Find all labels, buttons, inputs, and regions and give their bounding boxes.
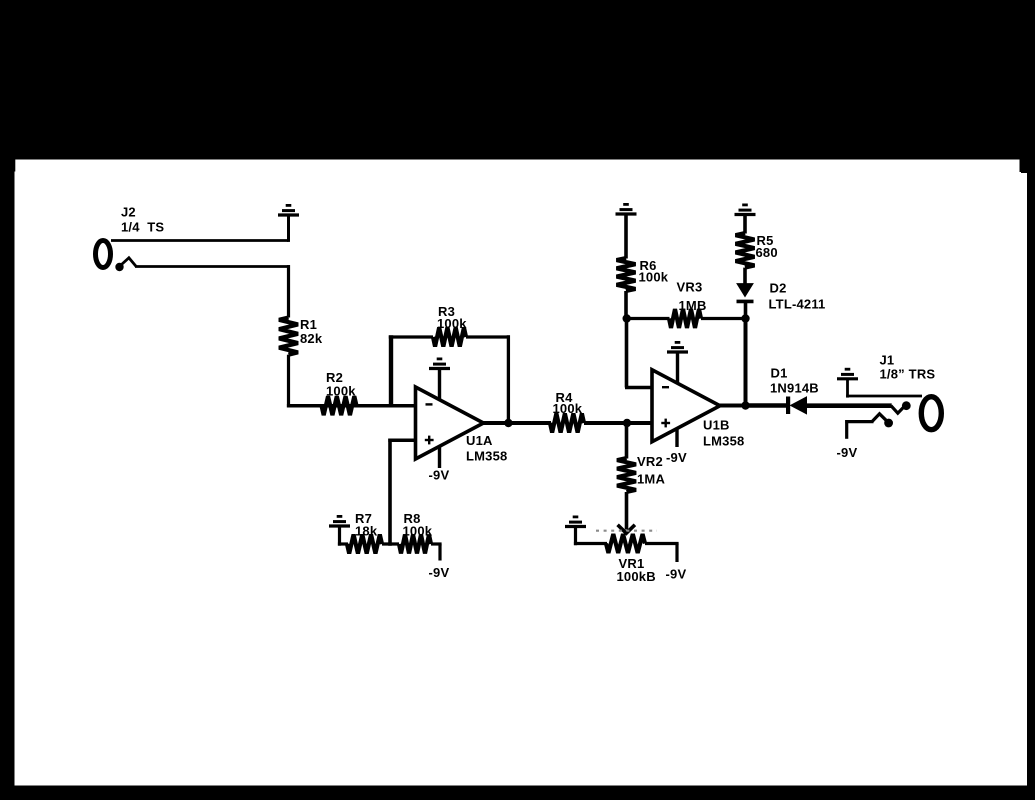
svg-text:100kB: 100kB xyxy=(617,569,656,584)
ground J1 xyxy=(837,369,858,379)
page corner tick top-left xyxy=(14,159,16,172)
svg-text:1N914B: 1N914B xyxy=(770,381,819,396)
svg-text:100k: 100k xyxy=(326,384,356,399)
resistor R5 xyxy=(736,233,755,268)
resistor R2 xyxy=(322,396,357,415)
wire down to R1 xyxy=(287,265,290,317)
svg-text:LM358: LM358 xyxy=(703,434,744,449)
page corner notch top-right xyxy=(1020,156,1035,172)
ground R6 xyxy=(616,204,637,214)
svg-text:1MA: 1MA xyxy=(637,472,665,487)
svg-text:-9V: -9V xyxy=(429,565,450,580)
svg-text:18k: 18k xyxy=(355,524,378,539)
ground J2 xyxy=(278,205,299,215)
svg-text:U1A: U1A xyxy=(466,433,493,448)
svg-text:-9V: -9V xyxy=(666,450,687,465)
resistor R4 xyxy=(550,414,584,433)
LED D2 xyxy=(737,284,753,297)
U1B minus sign xyxy=(662,386,669,388)
node J1 ring contact xyxy=(884,419,893,428)
wire VR1 ground stem xyxy=(574,528,577,546)
wire output to D1 xyxy=(746,403,787,408)
ground R5 xyxy=(735,205,756,215)
U1A minus sign xyxy=(426,403,433,405)
VR2 wiper arrow xyxy=(618,525,635,533)
wire D2 rail xyxy=(744,317,748,408)
wire VR3 left xyxy=(625,317,670,320)
wire U1A plus down xyxy=(388,439,392,546)
wire R5 to D2 xyxy=(743,268,747,285)
ground U1A vplus xyxy=(429,359,450,369)
svg-text:-9V: -9V xyxy=(429,468,450,483)
diode D1 xyxy=(786,397,790,415)
node feedback-output junction xyxy=(504,419,512,427)
wire R7-R8 xyxy=(382,542,399,545)
wire feedback down xyxy=(507,335,510,423)
wire U1B minus up xyxy=(625,317,629,388)
ground VR1 xyxy=(565,517,586,527)
svg-text:LTL-4211: LTL-4211 xyxy=(769,297,826,312)
wire U1A vminus stem xyxy=(438,446,441,468)
wire J1 ground stem xyxy=(846,380,849,398)
resistor R7 xyxy=(347,535,382,554)
wire D1 to J1 xyxy=(806,403,892,408)
node output junction xyxy=(741,401,749,409)
wire R1 to input row xyxy=(287,355,290,408)
svg-text:D2: D2 xyxy=(770,281,787,296)
trimmer VR3 xyxy=(669,309,701,328)
trimmer VR2 xyxy=(617,458,636,492)
svg-text:100k: 100k xyxy=(403,524,433,539)
wire J2 sleeve to ground xyxy=(111,239,289,242)
resistor R1 xyxy=(279,318,298,355)
svg-text:-9V: -9V xyxy=(666,567,687,582)
svg-text:1MB: 1MB xyxy=(679,298,707,313)
wire U1B output xyxy=(719,404,748,408)
jack J2 sleeve oval xyxy=(96,241,111,268)
wire input row xyxy=(287,404,416,408)
wire VR2 wiper xyxy=(625,492,629,530)
wire R8 to -9V xyxy=(431,542,442,545)
svg-text:1/8” TRS: 1/8” TRS xyxy=(880,367,936,382)
resistor R3 xyxy=(433,328,466,347)
wire J1 ring to -9V xyxy=(845,420,873,423)
ground R7 xyxy=(329,516,350,526)
wire U1A vplus stem xyxy=(438,370,441,400)
svg-text:100k: 100k xyxy=(639,270,669,285)
svg-text:VR2: VR2 xyxy=(637,454,663,469)
wire VR3 right xyxy=(701,317,747,320)
node J1 tip contact xyxy=(902,401,911,410)
wire U1A plus input xyxy=(388,439,415,443)
U1B plus sign xyxy=(661,422,670,424)
pot VR1 xyxy=(606,534,645,553)
wire R7 ground stem xyxy=(338,527,341,546)
wire J1 tip kink xyxy=(891,406,904,414)
wire R6 ground stem xyxy=(624,215,628,259)
wire feedback top left xyxy=(389,335,433,338)
svg-text:VR3: VR3 xyxy=(677,280,703,295)
resistor R8 xyxy=(399,535,431,554)
U1A plus sign xyxy=(425,439,434,441)
node J2 tip contact xyxy=(115,263,123,271)
wire R5 ground stem xyxy=(743,216,747,234)
wire ground stem J2 xyxy=(287,216,290,242)
wire feedback top right xyxy=(466,335,510,338)
op-amp U1B xyxy=(652,370,720,442)
VR1 track dashed line xyxy=(596,530,657,532)
white schematic page xyxy=(14,159,1029,787)
svg-text:R1: R1 xyxy=(300,317,317,332)
jack J1 sleeve oval xyxy=(921,397,941,430)
svg-text:J1: J1 xyxy=(880,353,895,368)
wire VR2 top xyxy=(625,423,629,459)
svg-text:100k: 100k xyxy=(553,401,583,416)
svg-text:680: 680 xyxy=(756,245,778,260)
svg-text:1/4 TS: 1/4 TS xyxy=(121,220,164,235)
svg-text:LM358: LM358 xyxy=(466,449,507,464)
node R6-VR3 junction xyxy=(623,314,631,322)
resistor R6 xyxy=(617,258,636,291)
node VR3-D2 junction xyxy=(741,314,749,322)
svg-text:J2: J2 xyxy=(121,205,136,220)
svg-text:82k: 82k xyxy=(300,331,323,346)
node R4-VR2 junction xyxy=(623,419,631,427)
wire J2 tip hook xyxy=(122,258,137,267)
wire feedback up xyxy=(389,335,393,407)
wire J1 ring lever xyxy=(872,414,887,422)
wire R6 down xyxy=(624,291,628,320)
wire R4 to U1B xyxy=(584,421,654,425)
svg-text:U1B: U1B xyxy=(703,418,730,433)
wire U1B vminus stem xyxy=(675,429,678,448)
svg-text:100k: 100k xyxy=(437,316,467,331)
ground U1B vplus xyxy=(667,342,688,352)
svg-text:-9V: -9V xyxy=(837,445,858,460)
wire VR1 to -9V xyxy=(645,542,679,545)
wire J2 tip to R1 xyxy=(135,265,290,268)
op-amp U1A xyxy=(416,387,484,459)
wire U1A output xyxy=(482,421,551,425)
wire D2 to junction xyxy=(744,301,748,320)
svg-text:D1: D1 xyxy=(771,366,788,381)
wire U1B minus input xyxy=(625,386,653,390)
wire U1B vplus stem xyxy=(676,353,679,383)
